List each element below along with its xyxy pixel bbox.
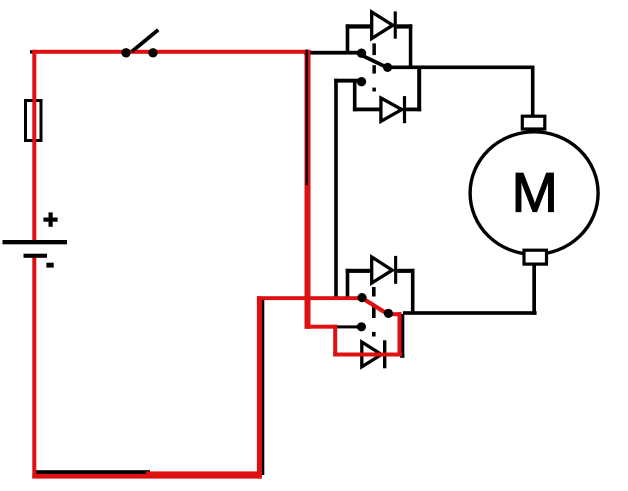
svg-text:M: M <box>512 161 558 223</box>
